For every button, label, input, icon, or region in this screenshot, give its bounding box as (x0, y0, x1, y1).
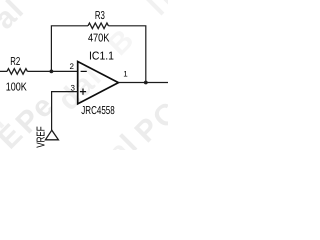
op-amp minus input mark (81, 70, 87, 72)
svg-text:VREF: VREF (36, 126, 48, 148)
op-amp U1 triangle (78, 62, 119, 104)
watermark band C bottom-right (102, 0, 186, 170)
wire input to pin2 (0, 70, 78, 72)
op-amp plus input mark (80, 89, 86, 95)
watermark band B top-left (0, 0, 31, 135)
svg-text:470K: 470K (88, 33, 110, 45)
svg-text:IC1.1: IC1.1 (89, 50, 114, 62)
vref triangle symbol (45, 130, 58, 140)
wire feedback left vertical + top left corner (51, 26, 88, 72)
node junction B (output) (144, 81, 148, 85)
svg-text:JRC4558: JRC4558 (81, 105, 115, 117)
resistor R3 (88, 23, 108, 29)
svg-text:2: 2 (70, 62, 75, 71)
resistor R2 (7, 69, 27, 75)
svg-text:R2: R2 (10, 56, 20, 68)
svg-text:100K: 100K (6, 81, 27, 93)
wire feedback top right + right vertical (108, 26, 145, 83)
watermark band A diagonal bottom-left (0, 23, 140, 155)
wire pin3 to vref (52, 92, 78, 130)
svg-text:1: 1 (123, 70, 128, 79)
node junction A (input/feedback) (50, 70, 54, 74)
svg-text:R3: R3 (95, 10, 105, 22)
wire output (118, 82, 168, 84)
